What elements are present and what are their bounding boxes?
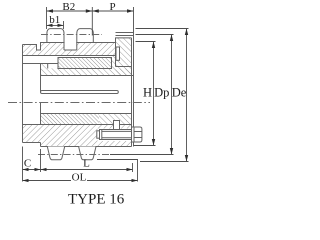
hatch bottom flange bbox=[23, 125, 132, 143]
lower band bottom / flange top line bbox=[23, 124, 132, 126]
svg-text:L: L bbox=[83, 158, 90, 170]
Dp top ext bbox=[136, 34, 174, 36]
De dim line bbox=[186, 29, 188, 162]
H dim line bbox=[153, 42, 155, 146]
line below dense band bbox=[41, 75, 134, 77]
svg-text:OL: OL bbox=[72, 172, 87, 184]
tooth T1 top bbox=[47, 29, 64, 43]
right face outer bbox=[133, 33, 135, 147]
hub vertical station x40 upper bbox=[40, 64, 42, 92]
arrowheads bbox=[23, 9, 189, 182]
hatch top right clamp plate block bbox=[116, 38, 132, 67]
hex facet line 2 bbox=[134, 137, 142, 139]
hatch left of dense band bbox=[41, 64, 59, 69]
dense band outline bbox=[58, 58, 112, 69]
bolt inner line 1 bbox=[102, 130, 132, 132]
ext line mid x92 bbox=[91, 7, 93, 36]
bottom tooth TB2 bbox=[79, 147, 96, 160]
bolt tip cap bbox=[97, 131, 100, 138]
OL corner line bbox=[97, 160, 138, 182]
svg-text:C: C bbox=[24, 158, 31, 170]
P dim line bbox=[92, 10, 133, 12]
body outline top profile bbox=[23, 38, 132, 50]
bushing keyway white rect bbox=[48, 64, 58, 68]
hatch rim band bbox=[41, 43, 116, 56]
svg-text:P: P bbox=[109, 1, 115, 13]
hatch below clamp block bbox=[116, 67, 132, 76]
groove between chain rows white bbox=[65, 42, 77, 50]
plate top line 1 bbox=[116, 32, 134, 34]
white channel between body and clamp plate bbox=[116, 47, 120, 60]
bottom tooth TB1 bbox=[47, 147, 64, 160]
groove right wall bbox=[76, 43, 78, 51]
left step line bbox=[23, 63, 59, 65]
centerline main bbox=[8, 35, 150, 155]
bolt inner line 2 bbox=[102, 137, 132, 139]
svg-text:b1: b1 bbox=[49, 14, 60, 26]
groove left wall bbox=[63, 43, 65, 51]
bore bottom line bbox=[41, 113, 132, 115]
ext b1 right bbox=[63, 21, 65, 29]
clamp block bottom line bbox=[116, 66, 132, 68]
bolt small square bbox=[114, 121, 120, 130]
flange bottom left bbox=[23, 142, 41, 144]
dimension graphics bbox=[23, 7, 189, 182]
hatch bottom root band bbox=[41, 143, 132, 147]
b1 arrows bbox=[47, 24, 53, 27]
root line bottom bbox=[41, 146, 132, 148]
H bottom ext bbox=[134, 145, 156, 147]
hatch right of dense band strip bbox=[112, 56, 116, 69]
hub vertical station x40 lower bbox=[40, 103, 42, 125]
H arrows bbox=[152, 42, 155, 49]
L arrows bbox=[41, 168, 47, 171]
clamp block left edge bbox=[115, 38, 117, 67]
flange bottom step bbox=[40, 143, 42, 147]
bottom pitch dash-dot bbox=[38, 154, 110, 156]
bolt body bbox=[100, 130, 132, 140]
C arrows bbox=[23, 168, 29, 171]
svg-text:De: De bbox=[172, 85, 187, 99]
hatch left flange top bbox=[23, 45, 37, 56]
B2 arrows bbox=[47, 9, 54, 12]
plate top line 2 bbox=[116, 35, 134, 37]
hatch notch strip bbox=[37, 50, 41, 56]
svg-text:Dp: Dp bbox=[154, 85, 169, 99]
right face inner bbox=[131, 38, 133, 147]
hatch lower band dense bbox=[41, 114, 100, 125]
bolt hex head bbox=[132, 127, 142, 142]
Dp arrows bbox=[170, 35, 173, 42]
De arrows bbox=[185, 29, 188, 36]
top pitch dash-dot bbox=[41, 34, 102, 36]
Dp dim line bbox=[171, 35, 173, 155]
svg-text:B2: B2 bbox=[62, 1, 75, 13]
b1 dim line bbox=[47, 24, 64, 26]
OL dim line bbox=[23, 180, 138, 182]
hatch dense middle band bbox=[58, 58, 112, 69]
groove bottom line bbox=[64, 49, 77, 51]
tooth T2 top bbox=[77, 29, 94, 43]
H top ext bbox=[136, 41, 156, 43]
ext left face bottom bbox=[22, 147, 24, 182]
hatch below dense band bbox=[41, 69, 132, 76]
svg-text:H: H bbox=[143, 85, 152, 99]
C dim line bbox=[23, 169, 41, 171]
svg-text:TYPE 16: TYPE 16 bbox=[68, 192, 125, 208]
Dp bottom ext bbox=[110, 154, 174, 156]
washer line bbox=[133, 127, 135, 142]
label OL white bg bbox=[71, 173, 87, 182]
sawcut slot bbox=[41, 91, 119, 94]
B2 dim line bbox=[47, 10, 93, 12]
rim band bottom line bbox=[23, 55, 116, 57]
De bottom ext bbox=[140, 161, 189, 163]
ext line right x133 bbox=[133, 7, 135, 33]
L dim line bbox=[41, 169, 133, 171]
hex facet line 1 bbox=[134, 131, 142, 133]
OL arrows bbox=[23, 179, 29, 182]
keyway left edge bbox=[47, 64, 49, 69]
hatch lower band light right bbox=[99, 114, 132, 125]
De top ext bbox=[136, 28, 189, 30]
left hub face bbox=[22, 45, 24, 143]
bolt white slot bbox=[98, 129, 132, 142]
P arrows bbox=[92, 9, 99, 12]
ext L right bbox=[132, 163, 134, 172]
ext x40 bottom bbox=[40, 149, 42, 172]
ext line B2 left bbox=[46, 7, 48, 29]
